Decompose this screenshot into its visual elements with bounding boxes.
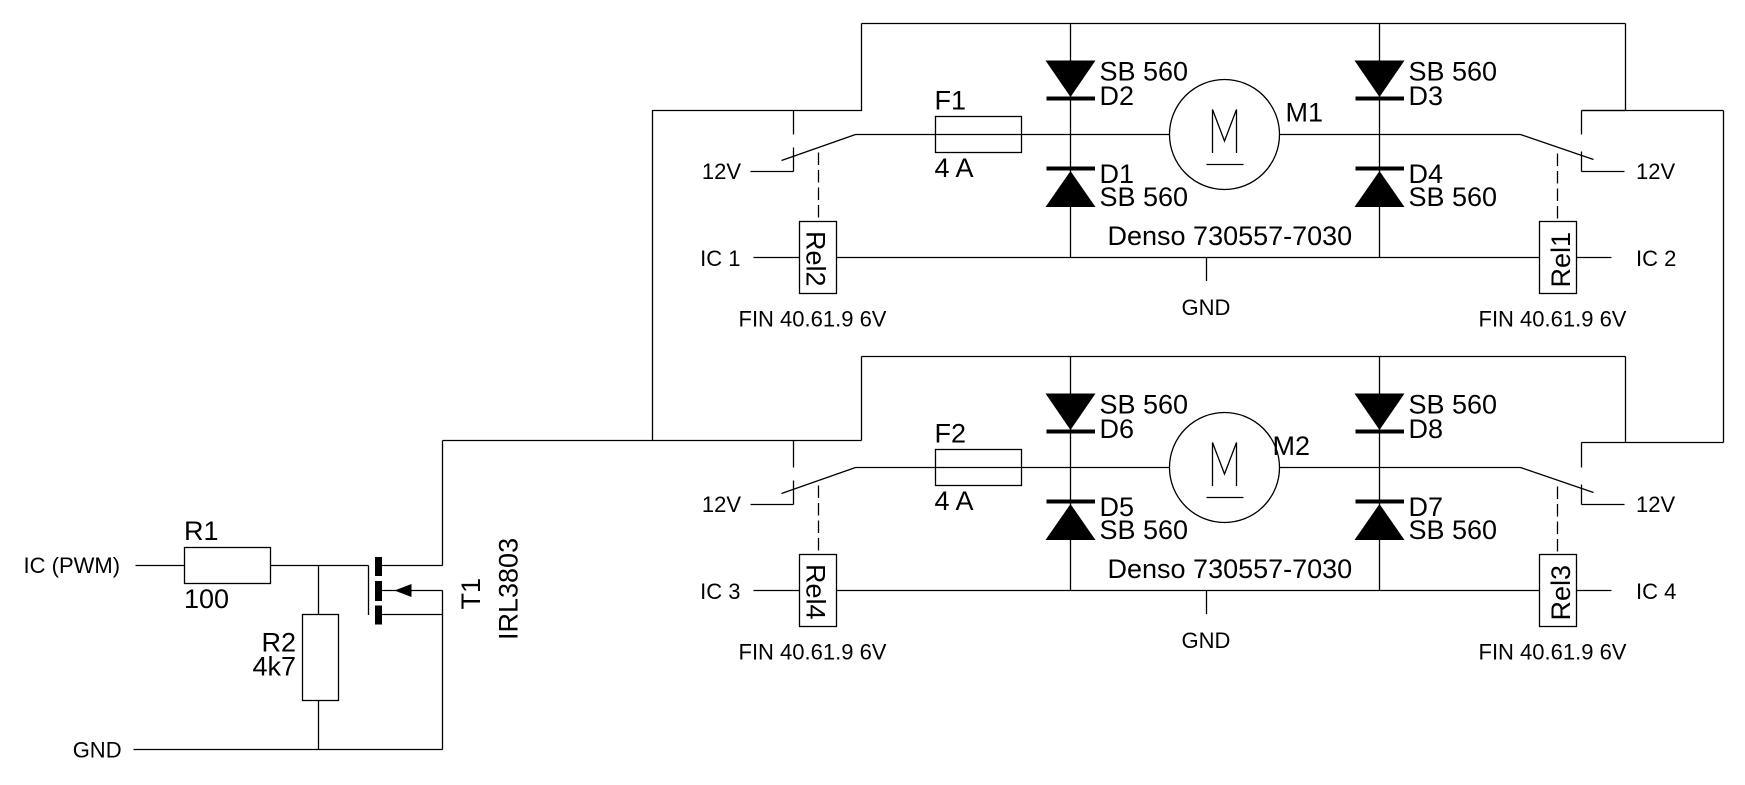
- svg-text:F1: F1: [935, 86, 967, 116]
- wire: [1577, 257, 1612, 259]
- wire: [936, 467, 1022, 469]
- svg-text:GND: GND: [1182, 628, 1231, 653]
- wire: [837, 257, 1540, 259]
- svg-text:FIN 40.61.9 6V: FIN 40.61.9 6V: [739, 307, 887, 332]
- svg-text:12V: 12V: [702, 159, 741, 184]
- svg-text:Rel4: Rel4: [801, 564, 831, 620]
- svg-text:IRL3803: IRL3803: [494, 538, 524, 640]
- ground: [1182, 591, 1231, 654]
- svg-text:IC (PWM): IC (PWM): [24, 553, 121, 578]
- wire: [1582, 442, 1724, 444]
- diode D7: [1355, 492, 1444, 540]
- wire: [1582, 24, 1626, 111]
- svg-text:SB 560: SB 560: [1100, 182, 1189, 212]
- svg-text:SB 560: SB 560: [1409, 390, 1498, 420]
- ground: [1182, 258, 1231, 321]
- svg-text:FIN 40.61.9 6V: FIN 40.61.9 6V: [1479, 640, 1627, 665]
- diode D8: [1355, 394, 1444, 445]
- svg-text:SB 560: SB 560: [1409, 515, 1498, 545]
- resistor R2: [261, 566, 338, 750]
- relay coil Rel1: [1540, 154, 1577, 294]
- wire: [271, 565, 369, 567]
- svg-text:12V: 12V: [1636, 159, 1675, 184]
- relay coil Rel4: [800, 486, 837, 627]
- wire: [1070, 24, 1072, 258]
- svg-text:IC 2: IC 2: [1636, 246, 1676, 271]
- svg-text:FIN 40.61.9 6V: FIN 40.61.9 6V: [1479, 307, 1627, 332]
- wire: [1379, 357, 1381, 591]
- svg-text:Rel2: Rel2: [801, 231, 831, 287]
- svg-text:12V: 12V: [1636, 492, 1675, 517]
- wire: [861, 357, 863, 441]
- fuse F2: [935, 419, 1022, 486]
- svg-text:Denso 730557-7030: Denso 730557-7030: [1108, 554, 1353, 584]
- wire: [862, 356, 1626, 358]
- wire: [936, 134, 1022, 136]
- resistor R1: [184, 516, 271, 584]
- svg-text:IC 3: IC 3: [700, 579, 740, 604]
- wire: [1070, 357, 1072, 591]
- wire: [442, 441, 444, 566]
- wire: [653, 24, 862, 441]
- svg-text:Denso 730557-7030: Denso 730557-7030: [1108, 221, 1353, 251]
- svg-text:4 A: 4 A: [935, 153, 974, 183]
- svg-text:M2: M2: [1273, 431, 1311, 461]
- motor M1: [1170, 80, 1324, 190]
- svg-text:FIN 40.61.9 6V: FIN 40.61.9 6V: [739, 640, 887, 665]
- wire: [1582, 110, 1724, 112]
- svg-text:SB 560: SB 560: [1100, 57, 1189, 87]
- wire: [1022, 134, 1170, 136]
- wire: [1022, 467, 1170, 469]
- wire: [837, 590, 1540, 592]
- diode D4: [1355, 159, 1444, 207]
- svg-text:F2: F2: [935, 419, 967, 449]
- wire: [856, 134, 936, 136]
- motor M2: [1170, 413, 1311, 523]
- wire: [754, 590, 800, 592]
- svg-text:GND: GND: [73, 737, 122, 762]
- wire: [1280, 134, 1521, 136]
- svg-text:SB 560: SB 560: [1100, 515, 1189, 545]
- svg-text:SB 560: SB 560: [1409, 182, 1498, 212]
- wire: [1625, 357, 1627, 443]
- switch contact (left, Rel4): [793, 441, 795, 468]
- switch contact (left, Rel2): [793, 111, 795, 135]
- svg-text:M1: M1: [1286, 98, 1324, 128]
- transistor T1: [369, 557, 487, 625]
- wire: [134, 749, 443, 751]
- switch contact (right, Rel1): [1581, 111, 1583, 135]
- svg-text:Rel1: Rel1: [1546, 232, 1576, 288]
- wire: [1577, 590, 1612, 592]
- wire: [1379, 24, 1381, 258]
- svg-text:IC 4: IC 4: [1636, 579, 1676, 604]
- wire: [751, 504, 794, 506]
- diode D2: [1046, 61, 1135, 112]
- svg-text:4k7: 4k7: [252, 652, 296, 682]
- wire: [1280, 467, 1521, 469]
- diode D1: [1046, 159, 1135, 207]
- wire: [856, 467, 936, 469]
- relay coil Rel2: [800, 153, 837, 294]
- fuse F1: [935, 86, 1022, 153]
- diode D5: [1046, 492, 1135, 540]
- wire: [1582, 171, 1625, 173]
- svg-text:T1: T1: [456, 578, 486, 610]
- switch contact (right, Rel3): [1581, 443, 1583, 468]
- svg-text:IC 1: IC 1: [700, 246, 740, 271]
- svg-text:GND: GND: [1182, 295, 1231, 320]
- wire: [1723, 111, 1725, 443]
- wire: [442, 591, 444, 750]
- svg-text:R1: R1: [184, 516, 219, 546]
- wire: [1582, 504, 1625, 506]
- svg-text:4 A: 4 A: [935, 486, 974, 516]
- wire: [136, 565, 185, 567]
- wire: [751, 171, 794, 173]
- wire: [754, 257, 800, 259]
- svg-text:100: 100: [184, 584, 229, 614]
- svg-text:12V: 12V: [702, 492, 741, 517]
- svg-text:SB 560: SB 560: [1409, 57, 1498, 87]
- wire: [443, 440, 862, 442]
- svg-text:SB 560: SB 560: [1100, 390, 1189, 420]
- relay coil Rel3: [1540, 487, 1577, 627]
- svg-text:Rel3: Rel3: [1546, 565, 1576, 621]
- diode D6: [1046, 394, 1135, 445]
- wire: [862, 23, 1626, 25]
- diode D3: [1355, 61, 1444, 112]
